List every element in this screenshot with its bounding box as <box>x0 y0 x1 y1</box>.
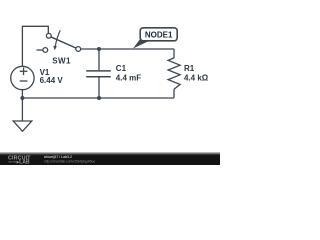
svg-text:R1: R1 <box>184 64 195 73</box>
wire bottom rail <box>22 97 174 99</box>
svg-text:6.44 V: 6.44 V <box>40 76 64 85</box>
ground <box>13 98 32 131</box>
capacitor C1 <box>86 49 111 98</box>
switch top throw terminal <box>46 33 51 38</box>
wire top rail <box>81 48 174 50</box>
voltage source V1 <box>11 66 34 98</box>
switch actuation arrow <box>55 30 60 46</box>
switch common terminal <box>76 47 81 52</box>
junction bottom rail / C1 <box>97 96 101 100</box>
switch blade <box>51 37 76 48</box>
svg-text:4.4 kΩ: 4.4 kΩ <box>184 73 209 82</box>
switch SW1 <box>37 30 81 52</box>
svg-text:C1: C1 <box>116 64 127 73</box>
wire V1 top to switch throw <box>22 26 48 66</box>
switch open throw terminal <box>43 48 48 53</box>
node NODE1 flag <box>133 28 177 49</box>
svg-text:NODE1: NODE1 <box>145 30 173 39</box>
switch open throw stub <box>37 49 43 51</box>
svg-text:nttp;//circuitlab.com/c5rb4j3q: nttp;//circuitlab.com/c5rb4j3qp45ue <box>44 159 95 163</box>
svg-text:4.4 mF: 4.4 mF <box>116 73 141 82</box>
svg-text:SW1: SW1 <box>52 56 71 65</box>
junction top rail / C1 <box>97 47 101 51</box>
resistor R1 <box>168 49 180 98</box>
junction bottom rail / V1 / ground <box>20 96 24 100</box>
svg-text:∼∼▸LAB: ∼∼▸LAB <box>8 160 30 165</box>
